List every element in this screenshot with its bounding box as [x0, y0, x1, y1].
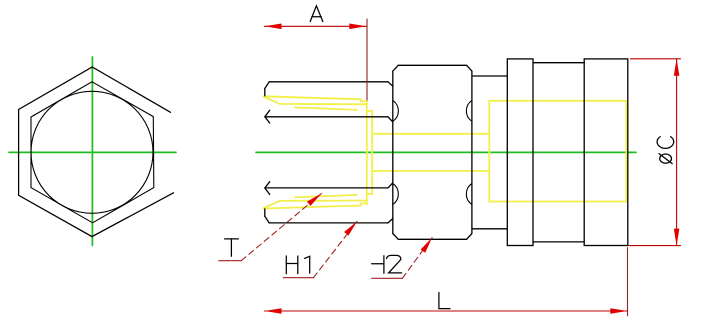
dimension A arrows — [265, 24, 367, 30]
counterbore wall — [371, 111, 373, 194]
label T — [225, 239, 239, 256]
swivel nut H1 outline — [265, 82, 393, 223]
label H2 — [372, 255, 402, 273]
leader H1 — [283, 222, 357, 278]
internal thread hidden lines (yellow) top — [263, 96, 626, 208]
label diameter C (rotated) — [657, 137, 674, 164]
hex chamfer arcs — [393, 100, 472, 204]
end view green centerline vertical — [91, 57, 93, 246]
leader T — [219, 194, 322, 261]
outer hexagon (end view, open right side) — [19, 67, 174, 237]
dimension L — [265, 248, 628, 316]
socket collar ring 2 — [584, 59, 628, 246]
socket sleeve middle — [533, 63, 584, 242]
label H1 — [286, 256, 309, 274]
leader H1 arrow — [344, 222, 357, 236]
leader T arrow — [307, 194, 322, 206]
dimension C arrows — [674, 59, 680, 246]
dimension C — [629, 59, 681, 246]
dimension A — [265, 19, 368, 100]
socket collar ring 1 — [507, 59, 533, 246]
leader H2 arrow — [421, 238, 433, 253]
neck cylinder — [472, 76, 507, 229]
end view green centerline horizontal — [9, 151, 176, 153]
socket internal cavity hidden outline — [489, 101, 626, 202]
thread end wall — [366, 100, 368, 204]
leader H2 — [372, 238, 432, 279]
nut corner lines with end chamfers — [265, 110, 270, 123]
label L — [439, 293, 450, 309]
inner hexagon (end view, slightly rotated) — [31, 82, 154, 223]
internal thread hidden lines (yellow) bottom — [263, 203, 366, 208]
chamfer circle (end view) — [31, 91, 153, 213]
hex body H2 outline — [393, 65, 472, 239]
dimension L arrows — [265, 308, 628, 314]
side view green centerline — [256, 151, 636, 153]
label A — [310, 6, 323, 22]
bore hidden lines — [372, 133, 489, 135]
